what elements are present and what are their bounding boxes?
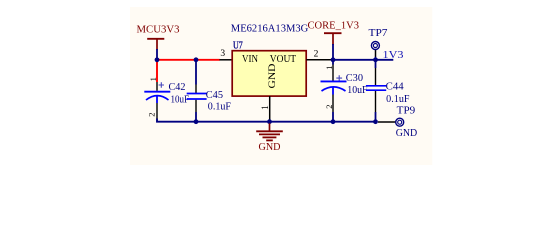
- node G junction C30/bus: [331, 119, 336, 124]
- wire MCU3V3 stem: [156, 49, 158, 60]
- power port CORE_1V3: [308, 21, 360, 45]
- ground symbol GND: [256, 123, 283, 153]
- plate 1: [187, 93, 207, 95]
- test point TP7: [369, 28, 388, 60]
- svg-text:GND: GND: [259, 142, 281, 153]
- wire CORE_1V3 stem: [332, 44, 334, 60]
- pin 3 VIN: [220, 59, 233, 61]
- pin 1 of C44: [375, 68, 377, 85]
- svg-text:GND: GND: [396, 128, 418, 139]
- wire VOUT rail: [333, 59, 376, 61]
- svg-text:GND: GND: [268, 63, 278, 88]
- node A junction: [155, 57, 160, 62]
- wire C44 bottom: [375, 112, 377, 121]
- svg-text:U7: U7: [233, 40, 243, 51]
- wire ground bus: [157, 119, 376, 122]
- node B junction C45 tap: [194, 57, 199, 62]
- wire C44 top: [375, 60, 377, 68]
- svg-text:ME6216A13M3G: ME6216A13M3G: [231, 24, 309, 35]
- svg-text:2: 2: [314, 49, 319, 59]
- capacitor C44: [366, 60, 386, 121]
- svg-text:2: 2: [324, 104, 334, 108]
- wire C45 top: [195, 60, 197, 85]
- wire red horizontal MCU3V3 rail: [157, 59, 220, 61]
- wire red vertical to C42: [156, 60, 158, 82]
- svg-text:TP9: TP9: [397, 105, 416, 116]
- svg-text:0.1uF: 0.1uF: [208, 101, 232, 112]
- svg-text:1: 1: [148, 77, 158, 81]
- curved plate: [146, 96, 169, 100]
- pin 1 of C30: [332, 65, 334, 81]
- svg-text:10uF: 10uF: [171, 95, 190, 106]
- svg-text:C30: C30: [346, 73, 363, 84]
- plus sign: [336, 75, 342, 81]
- node F junction GND/bus: [267, 119, 272, 124]
- pin 1 of C42: [156, 82, 158, 91]
- wire stub under 1V3 label: [376, 59, 394, 61]
- plate 2: [366, 89, 386, 91]
- plate 1: [366, 85, 386, 87]
- svg-text:1V3: 1V3: [383, 50, 404, 61]
- node C junction: [331, 57, 336, 62]
- capacitor C30: [321, 60, 347, 121]
- svg-text:C42: C42: [169, 82, 186, 93]
- pin 2 of C42: [156, 103, 158, 119]
- capacitor C42: [144, 77, 170, 119]
- pin 2 of C30: [332, 95, 334, 113]
- curved plate: [322, 87, 346, 91]
- plus sign: [159, 82, 164, 87]
- power port MCU3V3: [137, 25, 180, 51]
- wire C30 bottom: [332, 112, 334, 121]
- wire C45 bottom: [195, 112, 197, 121]
- stub below arc: [332, 87, 334, 94]
- op-amp U7 regulator body: [232, 51, 306, 96]
- pin 2 of C44: [375, 91, 377, 112]
- node H junction C44/bus: [373, 119, 378, 124]
- svg-text:10uF: 10uF: [347, 85, 368, 96]
- node D junction: [373, 57, 378, 62]
- capacitor C45: [187, 85, 207, 122]
- node E junction C45/bus: [194, 119, 199, 124]
- pin 2 VOUT: [306, 59, 333, 61]
- svg-text:1: 1: [324, 66, 334, 70]
- svg-text:VIN: VIN: [242, 54, 258, 65]
- test point TP9: [378, 105, 417, 139]
- pin 1 of C45: [195, 85, 197, 94]
- plate 2: [187, 98, 207, 100]
- svg-text:C45: C45: [206, 90, 223, 101]
- svg-text:0.1uF: 0.1uF: [386, 94, 410, 105]
- pin 2 of C45: [195, 100, 197, 112]
- svg-text:2: 2: [147, 112, 157, 116]
- flat plate: [321, 80, 347, 82]
- svg-text:1: 1: [260, 105, 270, 110]
- wire C30 top: [332, 60, 334, 65]
- stub below arc: [156, 96, 158, 103]
- svg-text:TP7: TP7: [369, 28, 388, 39]
- svg-text:CORE_1V3: CORE_1V3: [308, 21, 360, 32]
- svg-text:C44: C44: [386, 82, 404, 93]
- svg-text:MCU3V3: MCU3V3: [137, 25, 180, 36]
- sheet background: [130, 7, 432, 165]
- svg-text:3: 3: [220, 49, 225, 59]
- pin 1 GND of U7: [269, 96, 271, 121]
- svg-text:VOUT: VOUT: [270, 54, 297, 65]
- flat plate: [144, 91, 170, 93]
